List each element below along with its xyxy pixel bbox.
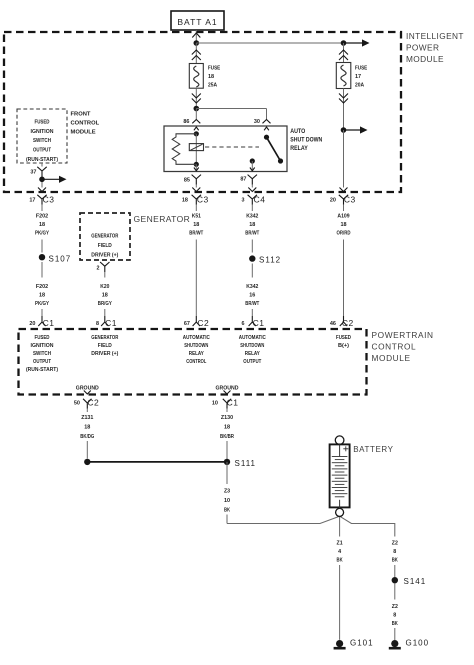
svg-text:S141: S141 <box>404 577 427 586</box>
svg-text:K20: K20 <box>100 284 110 290</box>
svg-text:OUTPUT: OUTPUT <box>33 147 51 153</box>
svg-text:18: 18 <box>249 222 256 228</box>
svg-text:INTELLIGENT: INTELLIGENT <box>406 31 464 41</box>
svg-text:Z3: Z3 <box>224 488 231 494</box>
svg-text:SHUT DOWN: SHUT DOWN <box>290 137 322 143</box>
svg-text:OR/RD: OR/RD <box>337 231 351 237</box>
svg-text:17: 17 <box>29 197 36 203</box>
svg-text:BK: BK <box>224 508 231 514</box>
svg-text:AUTOMATIC: AUTOMATIC <box>239 335 266 341</box>
svg-text:S111: S111 <box>235 459 257 468</box>
svg-text:F202: F202 <box>36 214 49 220</box>
svg-text:C2: C2 <box>87 397 99 407</box>
svg-text:87: 87 <box>240 177 247 183</box>
svg-text:FIELD: FIELD <box>98 343 112 349</box>
svg-text:Z130: Z130 <box>221 415 234 421</box>
svg-text:S112: S112 <box>259 256 281 265</box>
svg-text:C4: C4 <box>254 194 266 204</box>
svg-text:Z2: Z2 <box>392 604 399 610</box>
svg-text:(RUN-START): (RUN-START) <box>26 367 58 373</box>
svg-text:SHUTDOWN: SHUTDOWN <box>240 343 264 349</box>
svg-text:FRONT: FRONT <box>71 112 91 118</box>
svg-text:C2: C2 <box>197 318 209 328</box>
svg-text:BR/GY: BR/GY <box>98 301 112 307</box>
svg-text:RELAY: RELAY <box>245 351 260 357</box>
svg-text:C3: C3 <box>344 194 356 204</box>
svg-text:18: 18 <box>39 292 46 298</box>
svg-text:BR/WT: BR/WT <box>245 231 259 237</box>
svg-text:30: 30 <box>254 119 261 125</box>
svg-text:MODULE: MODULE <box>406 54 444 64</box>
svg-text:OUTPUT: OUTPUT <box>243 359 261 365</box>
svg-text:BATTERY: BATTERY <box>353 445 393 454</box>
svg-text:MODULE: MODULE <box>372 353 411 363</box>
svg-text:Z131: Z131 <box>81 415 94 421</box>
svg-text:18: 18 <box>224 424 231 430</box>
svg-text:20A: 20A <box>355 83 365 89</box>
svg-text:18: 18 <box>340 222 347 228</box>
svg-text:RELAY: RELAY <box>290 146 308 152</box>
svg-text:GENERATOR: GENERATOR <box>91 335 118 341</box>
svg-text:C3: C3 <box>43 194 55 204</box>
svg-text:GENERATOR: GENERATOR <box>91 233 118 239</box>
svg-text:18: 18 <box>84 424 91 430</box>
svg-text:CONTROL: CONTROL <box>372 342 417 352</box>
svg-text:POWERTRAIN: POWERTRAIN <box>372 330 434 340</box>
svg-text:G100: G100 <box>406 638 430 647</box>
svg-text:BATT A1: BATT A1 <box>177 17 217 27</box>
svg-text:50: 50 <box>74 400 81 406</box>
svg-text:BK/DG: BK/DG <box>80 434 94 440</box>
svg-text:RELAY: RELAY <box>189 351 204 357</box>
svg-text:FUSE: FUSE <box>208 66 220 72</box>
svg-text:C1: C1 <box>105 318 117 328</box>
svg-text:FUSED: FUSED <box>35 335 50 341</box>
svg-text:A109: A109 <box>337 214 350 220</box>
svg-text:IGNITION: IGNITION <box>31 129 54 135</box>
svg-text:BR/WT: BR/WT <box>189 231 203 237</box>
svg-text:FUSED: FUSED <box>336 335 351 341</box>
svg-text:CONTROL: CONTROL <box>71 121 100 127</box>
svg-text:K51: K51 <box>192 214 202 220</box>
svg-text:GROUND: GROUND <box>76 386 99 392</box>
svg-text:(RUN-START): (RUN-START) <box>26 157 58 163</box>
svg-text:BK/BR: BK/BR <box>220 434 235 440</box>
svg-text:C1: C1 <box>43 318 55 328</box>
svg-text:DRIVER (+): DRIVER (+) <box>91 253 118 259</box>
svg-text:18: 18 <box>39 222 46 228</box>
svg-text:BK: BK <box>392 621 399 627</box>
svg-text:K342: K342 <box>246 284 259 290</box>
svg-text:BK: BK <box>392 558 399 564</box>
svg-text:B(+): B(+) <box>338 343 349 349</box>
svg-text:FIELD: FIELD <box>98 243 112 249</box>
svg-text:16: 16 <box>249 292 256 298</box>
svg-text:C1: C1 <box>253 318 265 328</box>
svg-text:BK: BK <box>337 558 344 564</box>
svg-text:IGNITION: IGNITION <box>31 343 54 349</box>
svg-text:AUTOMATIC: AUTOMATIC <box>183 335 210 341</box>
svg-text:20: 20 <box>29 321 36 327</box>
svg-text:18: 18 <box>208 74 215 80</box>
svg-text:OUTPUT: OUTPUT <box>33 359 51 365</box>
svg-text:PK/GY: PK/GY <box>35 301 49 307</box>
svg-text:AUTO: AUTO <box>290 129 305 135</box>
svg-text:FUSE: FUSE <box>355 66 367 72</box>
svg-text:C2: C2 <box>342 318 354 328</box>
svg-text:46: 46 <box>330 321 337 327</box>
svg-text:MODULE: MODULE <box>71 130 96 136</box>
svg-text:85: 85 <box>184 178 191 184</box>
svg-text:FUSED: FUSED <box>35 119 50 125</box>
svg-text:POWER: POWER <box>406 42 439 52</box>
svg-text:20: 20 <box>330 197 337 203</box>
svg-text:86: 86 <box>183 119 190 125</box>
svg-text:17: 17 <box>355 74 362 80</box>
svg-text:18: 18 <box>193 222 200 228</box>
svg-text:Z2: Z2 <box>392 540 399 546</box>
svg-text:GROUND: GROUND <box>216 386 239 392</box>
svg-text:SWITCH: SWITCH <box>33 138 51 144</box>
svg-text:Z1: Z1 <box>337 540 344 546</box>
svg-text:SWITCH: SWITCH <box>33 351 51 357</box>
svg-text:SHUTDOWN: SHUTDOWN <box>184 343 208 349</box>
svg-text:BR/WT: BR/WT <box>245 301 259 307</box>
svg-text:37: 37 <box>30 170 37 176</box>
svg-text:25A: 25A <box>208 83 218 89</box>
svg-text:GENERATOR: GENERATOR <box>134 214 191 224</box>
svg-text:18: 18 <box>182 197 189 203</box>
svg-text:G101: G101 <box>350 638 374 647</box>
svg-text:67: 67 <box>184 321 191 327</box>
svg-text:C3: C3 <box>197 194 209 204</box>
svg-text:10: 10 <box>224 498 231 504</box>
svg-text:DRIVER (+): DRIVER (+) <box>91 351 118 357</box>
svg-text:C1: C1 <box>227 397 239 407</box>
svg-text:PK/GY: PK/GY <box>35 231 49 237</box>
svg-text:K342: K342 <box>246 214 259 220</box>
svg-text:S107: S107 <box>49 255 72 264</box>
svg-text:CONTROL: CONTROL <box>186 359 206 365</box>
svg-text:10: 10 <box>212 400 219 406</box>
svg-text:F202: F202 <box>36 284 49 290</box>
svg-text:18: 18 <box>102 292 109 298</box>
